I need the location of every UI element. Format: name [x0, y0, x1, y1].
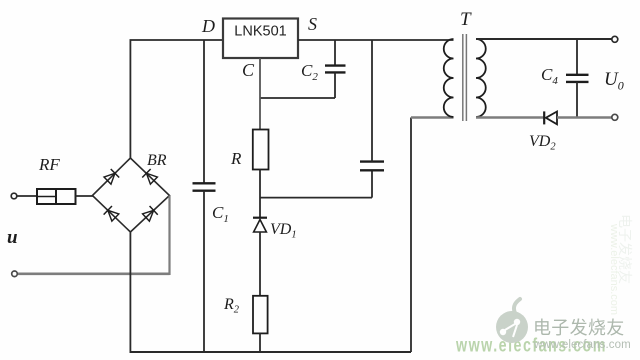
wire: bridge top vertex up to D rail [129, 40, 131, 158]
wire: secondary bottom grey to VD2 [476, 116, 544, 119]
wire: VD2 to output bottom [557, 116, 612, 119]
terminal: input bottom [12, 271, 18, 277]
svg-text:BR: BR [147, 152, 167, 169]
bridge diode bottom-right [142, 206, 158, 222]
svg-text:u: u [7, 227, 18, 248]
capacitor C3 [360, 162, 384, 171]
wire: C pin vertical [259, 58, 261, 130]
svg-text:D: D [201, 16, 215, 36]
wire: C3 branch upper to S rail [371, 40, 373, 162]
diode VD1 [253, 218, 267, 232]
svg-text:LNK501: LNK501 [234, 24, 286, 40]
IC U1 LNK501 [223, 19, 298, 59]
terminal: input top [11, 193, 17, 199]
wire: secondary top to output [476, 38, 612, 40]
bridge diode bottom-left [104, 206, 120, 222]
resistor R2 [253, 296, 268, 334]
bridge diode top-left [103, 169, 119, 185]
wire: input bottom grey to bridge right [18, 272, 170, 275]
wire: C1 branch upper [203, 40, 205, 183]
wire: C4 branch lower [576, 82, 578, 118]
wire: node below R horizontal to C3 [260, 197, 372, 199]
wire: bridge bottom vertex down to bottom rail [129, 232, 131, 352]
svg-text:T: T [460, 9, 472, 30]
svg-text:RF: RF [38, 155, 60, 174]
capacitor C4 [566, 75, 589, 82]
wire: C1 branch lower [203, 191, 205, 352]
svg-text:R: R [230, 149, 242, 168]
wire: R bottom to VD1 [259, 170, 261, 219]
diode VD2 [544, 111, 557, 124]
transformer T core [463, 34, 467, 121]
wire: bottom rail [130, 351, 412, 353]
svg-text:www.elecfans.com: www.elecfans.com [533, 339, 631, 351]
wire: D rail top horizontal [130, 39, 224, 41]
watermark logo [496, 299, 528, 343]
terminal: output top [612, 36, 618, 42]
svg-text:S: S [308, 14, 317, 34]
transformer T secondary winding [476, 39, 486, 117]
capacitor C2 [325, 66, 346, 73]
capacitor C1 [193, 183, 216, 190]
svg-text:C: C [242, 60, 255, 80]
fuse RF [37, 189, 76, 204]
wire: C2 branch upper [334, 40, 336, 66]
wire: input top from terminal to RF [17, 195, 38, 197]
wire: C4 branch upper [576, 39, 578, 75]
wire: right vertical from bottom rail up [410, 118, 412, 353]
resistor R [253, 130, 269, 170]
wire: R2 to bottom rail [259, 333, 261, 352]
terminal: output bottom [612, 114, 618, 120]
wire: S rail [298, 39, 454, 41]
wire: grey to transformer primary bottom [411, 116, 454, 118]
wire: C2 branch lower [334, 72, 336, 98]
bridge diode top-right [142, 169, 158, 185]
wire: VD1 to R2 [259, 232, 261, 296]
wire: bridge right vertex down [168, 196, 170, 276]
bridge rectifier BR diamond [92, 158, 169, 232]
wire: C pin node horizontal [260, 97, 335, 99]
wire: C3 branch lower [371, 170, 373, 197]
transformer T primary winding [444, 39, 454, 117]
svg-text:电子发烧友: 电子发烧友 [533, 318, 625, 338]
svg-text:www.elecfans.com: www.elecfans.com [608, 223, 620, 315]
wire: RF to bridge left vertex [76, 195, 94, 197]
